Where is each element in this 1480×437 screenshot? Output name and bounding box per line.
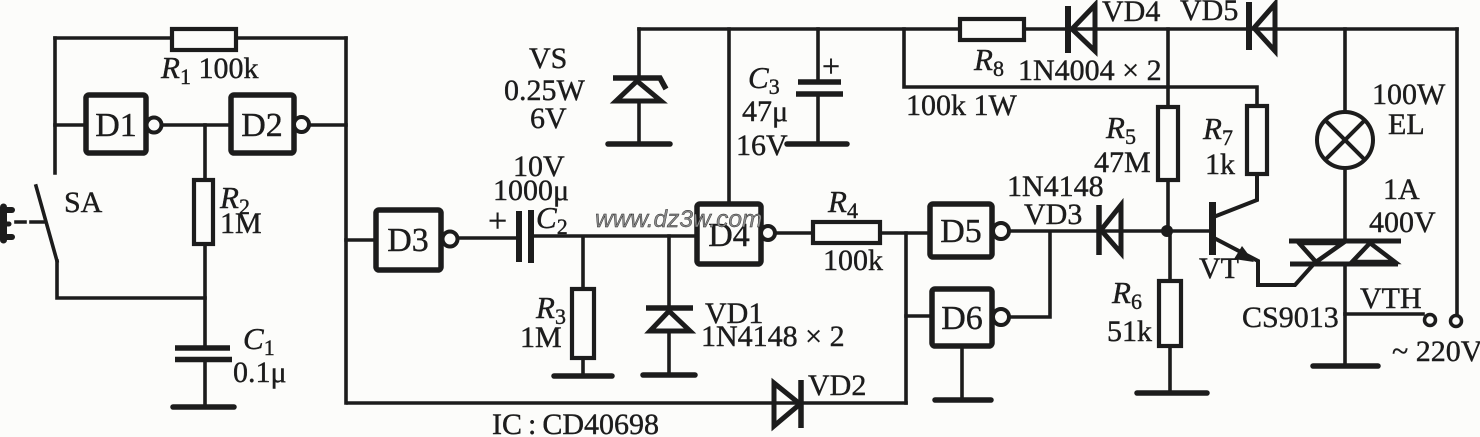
svg-text:1M: 1M xyxy=(520,321,562,354)
svg-text:VD2: VD2 xyxy=(808,369,866,402)
svg-text:D2: D2 xyxy=(241,107,283,144)
svg-text:1A: 1A xyxy=(1383,173,1420,206)
svg-text:100k 1W: 100k 1W xyxy=(906,89,1018,122)
svg-text:100k: 100k xyxy=(823,244,883,277)
svg-text:+: + xyxy=(488,203,507,240)
svg-text:VS: VS xyxy=(529,42,567,75)
svg-text:400V: 400V xyxy=(1369,206,1436,239)
svg-text:16V: 16V xyxy=(736,129,788,162)
svg-text:1N4148 × 2: 1N4148 × 2 xyxy=(701,320,845,353)
svg-text:D3: D3 xyxy=(387,222,429,259)
svg-text:100W: 100W xyxy=(1372,78,1446,111)
svg-text:51k: 51k xyxy=(1107,315,1152,348)
svg-text:1M: 1M xyxy=(220,207,262,240)
svg-text:D1: D1 xyxy=(95,107,137,144)
svg-text:R1 100k: R1 100k xyxy=(160,50,258,89)
svg-text:EL: EL xyxy=(1388,108,1425,141)
svg-text:D6: D6 xyxy=(941,300,983,337)
svg-text:VT: VT xyxy=(1199,252,1239,285)
svg-text:D5: D5 xyxy=(940,213,982,250)
svg-text:1k: 1k xyxy=(1205,148,1235,181)
svg-text:VTH: VTH xyxy=(1360,282,1422,315)
svg-text:1N4004 × 2: 1N4004 × 2 xyxy=(1018,54,1162,87)
svg-text:0.1μ: 0.1μ xyxy=(233,356,287,389)
svg-text:IC : CD40698: IC : CD40698 xyxy=(492,408,659,437)
svg-text:~ 220V: ~ 220V xyxy=(1392,335,1480,368)
svg-text:47μ: 47μ xyxy=(742,95,788,128)
svg-text:VD4: VD4 xyxy=(1102,0,1160,28)
svg-text:6V: 6V xyxy=(530,102,567,135)
svg-text:www.dz3w.com: www.dz3w.com xyxy=(595,206,762,233)
svg-text:+: + xyxy=(822,48,840,84)
svg-text:VD5: VD5 xyxy=(1180,0,1238,27)
svg-text:VD3: VD3 xyxy=(1024,198,1082,231)
svg-text:CS9013: CS9013 xyxy=(1242,301,1339,334)
svg-text:SA: SA xyxy=(64,186,103,219)
svg-text:47M: 47M xyxy=(1094,146,1151,179)
